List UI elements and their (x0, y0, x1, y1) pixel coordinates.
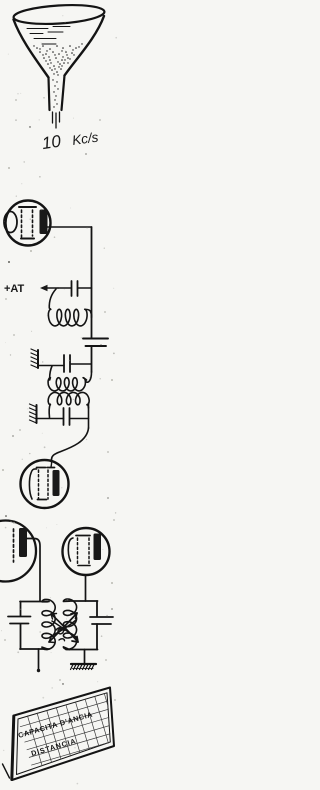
capacitor C1 (58, 281, 92, 296)
V2 grid 2 (47, 470, 49, 499)
V4 grid (76, 536, 90, 566)
capacitor C6 (90, 617, 113, 624)
V2 anode (53, 470, 60, 496)
vacuum tube V3 envelope (clipped left) (0, 521, 36, 582)
node +AT (4, 283, 58, 295)
ground G2 (30, 404, 37, 423)
V1 anode (40, 210, 48, 235)
vacuum tube V4 envelope (63, 528, 110, 575)
capacitor C2 series in rail (83, 339, 108, 373)
inductor L3 (48, 392, 89, 417)
capacitor C5 (8, 617, 31, 624)
wire rail end hook into L2 (86, 372, 92, 382)
wire rail down (91, 227, 93, 338)
wire G2 to C4 (37, 418, 64, 420)
wire V4 to T1 secondary (85, 575, 87, 601)
V3 grid (13, 529, 15, 562)
V4 cathode (68, 538, 73, 561)
vacuum tube V2 envelope (21, 460, 69, 508)
scan specks (2, 99, 116, 701)
graph card inner border (17, 693, 111, 775)
V1 cathode (4, 212, 17, 233)
graph card left edge thick (12, 716, 14, 780)
capacitor C4 (64, 408, 89, 425)
inductor L1 (48, 289, 91, 326)
V2 cathode (29, 469, 36, 499)
ground G1 (31, 349, 38, 368)
stray pencil mark (3, 764, 10, 778)
inductor L2 (48, 366, 86, 391)
T1 primary winding (42, 599, 55, 649)
granules in funnel (33, 43, 82, 107)
wire to V2 grid (52, 428, 89, 460)
wire G1 to C3 (38, 365, 64, 367)
label 10 Kc/s (41, 129, 100, 153)
wire anode to rail (48, 226, 92, 228)
T1 secondary frame (66, 601, 98, 650)
svg-text:10: 10 (41, 132, 63, 154)
vacuum tube V1 envelope (6, 201, 51, 246)
V2 grid lead (50, 460, 53, 468)
svg-text:+AT: +AT (4, 283, 25, 295)
V3 anode (19, 528, 27, 557)
T1 secondary winding (63, 599, 76, 649)
capacitor C3 (64, 355, 91, 372)
wire secondary to ground (84, 650, 86, 664)
graph card outer border (12, 688, 114, 781)
funnel (13, 3, 105, 128)
coupling arrows (49, 613, 78, 643)
stub end dot (37, 669, 40, 672)
wire L3 right down (88, 403, 90, 428)
V1 grid (19, 207, 36, 239)
T1 primary frame (20, 602, 49, 650)
ground G3 (71, 664, 97, 670)
T1 primary bottom stub (38, 649, 40, 670)
V4 anode (94, 534, 102, 561)
V2 grid 1 (37, 468, 47, 500)
wire V3 anode to T1 (27, 539, 40, 602)
